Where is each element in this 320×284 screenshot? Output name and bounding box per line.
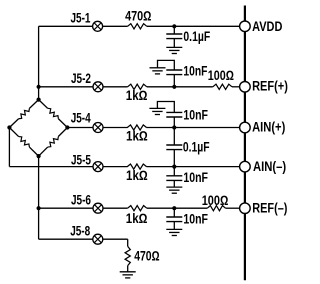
pin AVDD bus circle bbox=[240, 21, 251, 32]
wire cap C1 stub bbox=[173, 26, 175, 34]
connector J5-8 crossed circle bbox=[93, 234, 103, 244]
node row1 junction dot bbox=[172, 24, 176, 28]
wire left-branch vertical from bridge left vertex bbox=[8, 128, 10, 167]
node bridge left vertex dot bbox=[7, 125, 11, 129]
wire row4 full segment bbox=[9, 166, 93, 168]
svg-text:J5-8: J5-8 bbox=[70, 224, 90, 239]
pin REF(+) bus circle bbox=[240, 82, 251, 93]
capacitor C2 10nF plates bbox=[166, 70, 182, 75]
pin REF(-) bus circle bbox=[240, 203, 251, 214]
node row5 branch dot on central line bbox=[37, 206, 41, 210]
resistor R-row1 470ohm zigzag bbox=[128, 24, 147, 29]
svg-text:1kΩ: 1kΩ bbox=[126, 88, 148, 103]
svg-text:1kΩ: 1kΩ bbox=[126, 129, 148, 144]
node bridge right vertex dot bbox=[65, 125, 69, 129]
wire central vertical (J5-1 corner to bridge top) bbox=[38, 26, 40, 99]
connector J5-6 crossed circle bbox=[93, 203, 103, 213]
svg-text:100Ω: 100Ω bbox=[208, 68, 234, 83]
ground below C5 bbox=[166, 187, 182, 193]
wire cap C3 stub up bbox=[173, 117, 175, 128]
wire row6 left segment bbox=[39, 238, 93, 240]
pin AIN(-) bus circle bbox=[240, 161, 251, 172]
wire row6 circle-to-corner bbox=[103, 238, 128, 240]
node row2 branch dot on central line bbox=[37, 85, 41, 89]
bridge resistor top-right lead1 bbox=[39, 100, 48, 109]
wire central vertical (bridge bottom to J5-8 corner) bbox=[38, 156, 40, 239]
resistor R-row4 1kohm zigzag bbox=[127, 164, 146, 169]
svg-text:J5-6: J5-6 bbox=[71, 193, 91, 208]
wire row5 resistor-to-R100 bbox=[147, 207, 208, 209]
bridge resistor top-right zigzag bbox=[48, 108, 59, 118]
wire row1 resistor-to-bus bbox=[147, 25, 240, 27]
connector J5-4 crossed circle bbox=[93, 123, 103, 133]
resistor R-row2 1kohm zigzag bbox=[128, 84, 147, 89]
bridge resistor bottom-left lead1 bbox=[9, 128, 18, 137]
wire row1 circle-to-resistor bbox=[103, 25, 128, 27]
node bridge top vertex dot bbox=[37, 98, 41, 102]
resistor R-row5 100ohm zigzag bbox=[207, 206, 225, 211]
capacitor C3 10nF plates bbox=[166, 112, 182, 117]
svg-text:1kΩ: 1kΩ bbox=[126, 168, 148, 183]
connector J5-5 crossed circle bbox=[93, 162, 103, 172]
node row2 junction dot bbox=[172, 85, 176, 89]
ground beside C2 bbox=[150, 68, 166, 74]
capacitor C1 0.1uF plates bbox=[166, 34, 182, 39]
svg-text:10nF: 10nF bbox=[183, 63, 207, 78]
node row3 junction dot bbox=[172, 125, 176, 129]
bridge resistor top-left lead1 bbox=[29, 100, 38, 109]
bridge resistor bottom-right lead2 bbox=[39, 147, 48, 156]
svg-text:AIN(+): AIN(+) bbox=[252, 119, 285, 134]
wire C6 to ground stub bbox=[173, 222, 175, 230]
bridge resistor top-left zigzag bbox=[19, 108, 30, 118]
wire row5 R100-to-bus bbox=[226, 207, 240, 209]
wire row4 resistor-to-bus bbox=[147, 166, 240, 168]
ground below C1 bbox=[166, 47, 182, 53]
bridge resistor bottom-left zigzag bbox=[19, 137, 30, 148]
wire row5 left segment bbox=[39, 207, 93, 209]
bridge resistor bottom-left lead2 bbox=[29, 147, 38, 156]
svg-text:10nF: 10nF bbox=[183, 212, 208, 227]
net bus vertical rail bbox=[244, 6, 246, 281]
wire row2 resistor-to-R100 bbox=[147, 86, 213, 88]
svg-text:0.1µF: 0.1µF bbox=[183, 139, 210, 154]
wire cap C5 stub bbox=[173, 167, 175, 176]
svg-text:J5-4: J5-4 bbox=[71, 111, 91, 126]
wire cap C2 stub up bbox=[173, 75, 175, 87]
resistor R-bottom 470ohm vertical zigzag bbox=[125, 246, 130, 265]
wire C2 top stub and jog to ground bbox=[158, 60, 175, 70]
wire C1 to ground stub bbox=[173, 39, 175, 48]
capacitor C5 10nF plates bbox=[166, 176, 182, 181]
node row4 junction dot bbox=[172, 165, 176, 169]
wire C3 top stub and jog to ground bbox=[157, 102, 174, 113]
bridge resistor bottom-right zigzag bbox=[48, 137, 59, 148]
ground bottom bbox=[120, 272, 136, 278]
svg-text:100Ω: 100Ω bbox=[202, 193, 229, 208]
wire cap C6 stub bbox=[173, 208, 175, 217]
wire row2 left segment bbox=[39, 86, 93, 88]
pin AIN(+) bus circle bbox=[240, 122, 251, 133]
wire row3 bridge-to-circle bbox=[67, 127, 93, 129]
capacitor C4 0.1uF plates bbox=[166, 145, 182, 150]
bridge resistor top-right lead2 bbox=[58, 119, 67, 128]
svg-text:J5-5: J5-5 bbox=[71, 152, 91, 167]
wire row1 left segment bbox=[39, 25, 93, 27]
resistor R-row5 1kohm zigzag bbox=[128, 206, 147, 211]
node bridge bottom vertex dot bbox=[37, 154, 41, 158]
svg-text:J5-2: J5-2 bbox=[71, 71, 91, 86]
capacitor C6 10nF plates bbox=[166, 217, 182, 222]
svg-text:470Ω: 470Ω bbox=[125, 9, 151, 24]
wire C5 to ground stub bbox=[173, 180, 175, 187]
svg-text:REF(+): REF(+) bbox=[252, 78, 288, 93]
resistor R-row2 100ohm zigzag bbox=[213, 84, 232, 89]
bridge resistor bottom-right lead1 bbox=[58, 128, 67, 137]
svg-text:1kΩ: 1kΩ bbox=[126, 211, 148, 226]
svg-text:REF(–): REF(–) bbox=[252, 200, 287, 215]
wire C4 stub from row3 bbox=[173, 128, 175, 146]
wire row6 corner down to resistor bbox=[127, 239, 129, 246]
connector J5-2 crossed circle bbox=[93, 82, 103, 92]
ground below C6 bbox=[166, 229, 182, 235]
ground beside C3 bbox=[149, 108, 165, 114]
wire row3 circle-to-resistor bbox=[103, 127, 128, 129]
svg-text:AIN(–): AIN(–) bbox=[253, 159, 286, 174]
node row5 junction dot bbox=[172, 206, 176, 210]
wire C4 stub to row4 bbox=[173, 150, 175, 167]
wire row4 circle-to-resistor bbox=[103, 166, 128, 168]
svg-text:0.1µF: 0.1µF bbox=[183, 29, 210, 44]
connector J5-1 crossed circle bbox=[93, 21, 103, 31]
wire row5 circle-to-resistor bbox=[103, 207, 128, 209]
wire row3 resistor-to-bus bbox=[147, 127, 240, 129]
resistor R-row3 1kohm zigzag bbox=[127, 125, 146, 130]
wire row2 circle-to-resistor bbox=[103, 86, 128, 88]
wire resistor-to-ground stub bbox=[127, 266, 129, 272]
svg-text:10nF: 10nF bbox=[183, 170, 208, 185]
bridge resistor top-left lead2 bbox=[9, 119, 18, 128]
svg-text:470Ω: 470Ω bbox=[134, 249, 159, 264]
svg-text:AVDD: AVDD bbox=[252, 19, 283, 34]
wire row2 R100-to-bus bbox=[232, 86, 240, 88]
svg-text:10nF: 10nF bbox=[183, 108, 208, 123]
svg-text:J5-1: J5-1 bbox=[71, 11, 91, 26]
